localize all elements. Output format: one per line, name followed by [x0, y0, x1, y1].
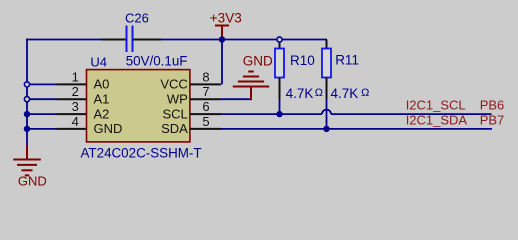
svg-text:8: 8: [202, 69, 209, 84]
pin 6 SCL stub: [190, 113, 221, 115]
node hollow junction at pin 1 branch: [24, 82, 29, 87]
pin 3 A2 stub: [57, 113, 87, 115]
ground GND1 bar 2: [17, 164, 37, 166]
svg-text:2: 2: [72, 84, 79, 99]
svg-text:U4: U4: [90, 55, 107, 70]
resistor R11 body: [322, 49, 331, 78]
svg-text:Ω: Ω: [361, 87, 369, 99]
svg-text:GND: GND: [94, 121, 123, 136]
ground GND1 bar 3: [22, 169, 33, 171]
ground GND2 bar 3: [243, 76, 259, 78]
svg-text:+3V3: +3V3: [210, 11, 242, 26]
node junction dot R11/SDA: [323, 126, 329, 132]
capacitor C26 left plate: [126, 26, 128, 53]
wire branch to pin 1: [27, 83, 57, 85]
resistor R10 bottom pin: [279, 78, 281, 99]
svg-text:GND: GND: [18, 174, 47, 189]
svg-text:SDA: SDA: [161, 121, 188, 136]
resistor R11 bottom pin: [326, 78, 328, 99]
wire R11 to SDA: [326, 99, 328, 129]
svg-text:1: 1: [72, 69, 79, 84]
svg-text:Ω: Ω: [315, 87, 323, 99]
svg-text:4.7K: 4.7K: [286, 86, 314, 101]
wire branch to pin 2: [27, 98, 57, 100]
op-amp U1 n/a: IC U4 body: [87, 70, 190, 142]
svg-text:A1: A1: [94, 91, 110, 106]
node hollow junction at pin 2 branch: [24, 97, 29, 102]
svg-text:I2C1_SCL: I2C1_SCL: [406, 97, 466, 112]
wire pin 8 up to rail: [221, 40, 223, 85]
pin 2 A1 stub: [57, 98, 87, 100]
node junction dot R10/SCL: [276, 111, 282, 117]
capacitor C26 left pin: [102, 39, 126, 41]
pin 1 A0 stub: [57, 83, 87, 85]
svg-text:R11: R11: [335, 53, 359, 68]
wire SCL net right segment: [331, 113, 492, 115]
wire branch to pin 4: [27, 128, 57, 130]
resistor R11 top pin: [326, 40, 328, 49]
svg-text:6: 6: [202, 99, 209, 114]
svg-text:PB7: PB7: [480, 112, 505, 127]
power +3V3 stem: [221, 26, 223, 40]
wire top rail left segment: [26, 39, 102, 41]
svg-text:SCL: SCL: [163, 106, 188, 121]
wire branch to pin 3: [27, 113, 57, 115]
wire pin 7 to ground: [221, 98, 253, 100]
wire SDA net: [221, 128, 492, 130]
wire SCL net left segment: [221, 113, 322, 115]
pin 7 WP stub: [190, 98, 221, 100]
svg-text:PB6: PB6: [480, 97, 505, 112]
svg-text:4.7K: 4.7K: [331, 86, 359, 101]
node hollow circle at R10 rail tap: [277, 37, 282, 42]
power +3V3 bar: [215, 25, 229, 27]
svg-text:VCC: VCC: [160, 77, 187, 92]
wire top rail right segment: [161, 39, 327, 41]
node junction dot at pin 4 branch: [24, 126, 30, 132]
ground GND2 bar 2: [238, 81, 264, 83]
ground GND1 bar 1: [13, 159, 41, 161]
resistor R10 body: [275, 49, 284, 78]
ground GND2 bar 4: [248, 71, 254, 73]
svg-text:4: 4: [72, 114, 79, 129]
node junction dot at +3V3 rail: [219, 36, 225, 42]
capacitor C26 right plate: [132, 26, 134, 53]
svg-text:A2: A2: [94, 106, 110, 121]
node junction dot at pin 3 branch: [24, 111, 30, 117]
pin 5 SDA stub: [190, 128, 221, 130]
wire R10 to SCL: [279, 99, 281, 115]
ground GND2 stem: [250, 87, 252, 101]
svg-text:3: 3: [72, 99, 79, 114]
svg-text:GND: GND: [243, 54, 273, 69]
ground GND1 bar 4: [25, 174, 29, 176]
svg-text:I2C1_SDA: I2C1_SDA: [406, 112, 468, 127]
svg-text:50V/0.1uF: 50V/0.1uF: [126, 53, 188, 68]
svg-text:R10: R10: [290, 53, 315, 68]
svg-text:AT24C02C-SSHM-T: AT24C02C-SSHM-T: [81, 145, 202, 160]
resistor R10 top pin: [279, 42, 281, 49]
pin 4 GND stub: [57, 128, 87, 130]
pin 8 VCC stub: [190, 83, 221, 85]
svg-text:7: 7: [202, 84, 209, 99]
svg-text:WP: WP: [167, 91, 188, 106]
capacitor C26 right pin: [134, 39, 162, 41]
ground GND2 bar 1: [233, 86, 269, 88]
svg-text:5: 5: [202, 114, 209, 129]
ground GND1 stem: [26, 145, 28, 160]
wire left vertical rail: [26, 39, 28, 146]
wire SCL hop over R11 lead: [322, 110, 331, 115]
svg-text:A0: A0: [94, 77, 110, 92]
svg-text:C26: C26: [125, 11, 149, 26]
